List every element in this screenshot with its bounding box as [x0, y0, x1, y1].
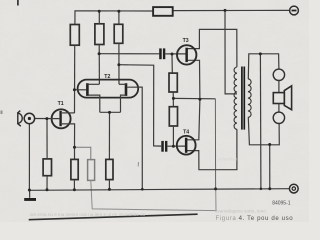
transformer TR1 primary winding: [234, 67, 237, 129]
wire R3 bottom to T2 right collector: [118, 43, 120, 84]
wire T1 collector: [62, 112, 75, 114]
op T1 transistor circle: [52, 109, 71, 128]
stray tick top left: [17, 0, 19, 6]
transistor T4 lower lead to transformer primary bottom: [186, 129, 237, 169]
wire secondary top node to ground rail: [259, 54, 262, 189]
resistor R2 (T2 left collector load): [95, 24, 104, 45]
wire node C4 feed (T2 right collector around to C4): [119, 65, 161, 146]
wire rail stub to ground: [29, 190, 31, 198]
wire R5 to emitter node: [172, 92, 174, 107]
wire C1 to T3 base: [165, 53, 186, 55]
input jack socket: [24, 113, 34, 123]
resistor R4 (series resistor in top rail): [153, 7, 173, 16]
wire R2 bottom to T2 left collector: [98, 45, 100, 85]
wire R10 bottom to rail: [108, 180, 110, 190]
wire centre tap of primary to top rail: [225, 10, 237, 94]
wire C2 to T4 base: [167, 145, 185, 147]
transformer TR1 core: [241, 67, 243, 130]
resistor R3 (T2 right collector load): [114, 24, 123, 43]
wire T2 right collector connector: [119, 83, 126, 85]
wire R1 bottom to T1 collector and T2 left base node: [74, 45, 76, 113]
wire speaker bottom node to rail: [269, 145, 271, 189]
terminal post top (speaker): [273, 69, 284, 80]
wire terminal to speaker: [278, 81, 280, 93]
wire T2 left emitter connector: [87, 95, 99, 112]
wire T2 emitter node to R10: [108, 112, 110, 159]
terminal post bottom (speaker): [273, 112, 284, 123]
wire common emitter node horizontal: [173, 97, 215, 99]
transistor T1 base bar: [59, 111, 61, 126]
wire R7 bottom to rail: [46, 176, 48, 190]
transistor T4 circle: [177, 136, 196, 155]
resistor R10 (T2 common emitter): [106, 159, 113, 179]
wire T2 right base to ground rail: [127, 87, 142, 189]
stray mark near R9: [137, 162, 139, 167]
wire R8 bottom to rail: [73, 180, 75, 190]
wire T2 left base to T1 collector node: [74, 89, 86, 91]
faint print-through text rows: [30, 157, 266, 218]
wire emitter node down to rail: [214, 99, 216, 189]
wire speaker to bottom terminal: [278, 104, 280, 113]
wire rail to R3 top: [118, 11, 120, 24]
wire input node down to R7: [46, 119, 48, 159]
ground symbol bar: [24, 198, 36, 201]
wire R6 bottom to T4 base node: [172, 126, 174, 146]
wire bottom supply rail: [29, 189, 289, 191]
capacitor C1 (coupling to T3 base): [159, 48, 165, 59]
wire jack sleeve down to rail: [28, 124, 30, 190]
wire T2 emitters join: [100, 111, 121, 113]
wire top supply rail (right segment to minus terminal): [173, 9, 290, 11]
transformer TR1 secondary winding: [248, 79, 251, 118]
terminal plus (bottom right): [289, 184, 298, 193]
op-amp T3 transistor circle: [177, 45, 196, 64]
wire rail to R2 top: [98, 11, 100, 23]
resistor R5 (bias chain upper): [169, 73, 177, 92]
resistor R6 (bias chain lower): [169, 107, 177, 126]
transistor T4 upper lead to emitter node: [186, 99, 200, 140]
wire T2 left collector connector: [87, 83, 99, 85]
resistor R1 (T1 collector load): [70, 25, 79, 46]
wire T3 base node down to R5: [171, 54, 173, 73]
wire node A to grey resistor top: [75, 147, 91, 159]
wire node C3 feed (T2 left collector to C3): [99, 53, 159, 55]
wire node A down to R8: [74, 147, 76, 159]
capacitor C2 (coupling to T4 base): [161, 141, 167, 152]
speaker LS1 cone: [284, 86, 291, 110]
resistor R9 (grey, feedback): [88, 160, 95, 181]
transistor T2 left base bar: [86, 83, 89, 96]
wire T2 right emitter connector: [121, 95, 127, 112]
terminal minus (top right): [290, 6, 299, 15]
transistor T4 base bar: [185, 138, 188, 153]
transistor T3 upper lead to transformer primary top: [187, 29, 237, 67]
speaker LS1 box: [273, 93, 284, 104]
transistor T3 base bar: [185, 48, 188, 62]
wire top supply rail (left segment): [75, 11, 153, 25]
wire R9 bottom loop under rail to right: [91, 180, 216, 210]
transistor T3 lower lead to emitter node: [187, 60, 200, 99]
transistor T2 envelope (dual unit): [78, 80, 139, 98]
labels: [58, 38, 190, 135]
left edge speck: [1, 111, 3, 115]
wire secondary top to speaker loop: [248, 54, 279, 79]
resistor R7 (input bias): [43, 159, 51, 176]
resistor R8 (T1 emitter): [71, 159, 78, 179]
wire input jack to T1 base: [35, 118, 61, 120]
input jack plug symbol: [17, 111, 22, 127]
page rule below figure: [29, 214, 198, 220]
transistor T2 right base bar: [125, 83, 128, 96]
wire T1 emitter down to node A: [62, 124, 75, 147]
wire secondary bottom to speaker loop: [248, 117, 279, 145]
